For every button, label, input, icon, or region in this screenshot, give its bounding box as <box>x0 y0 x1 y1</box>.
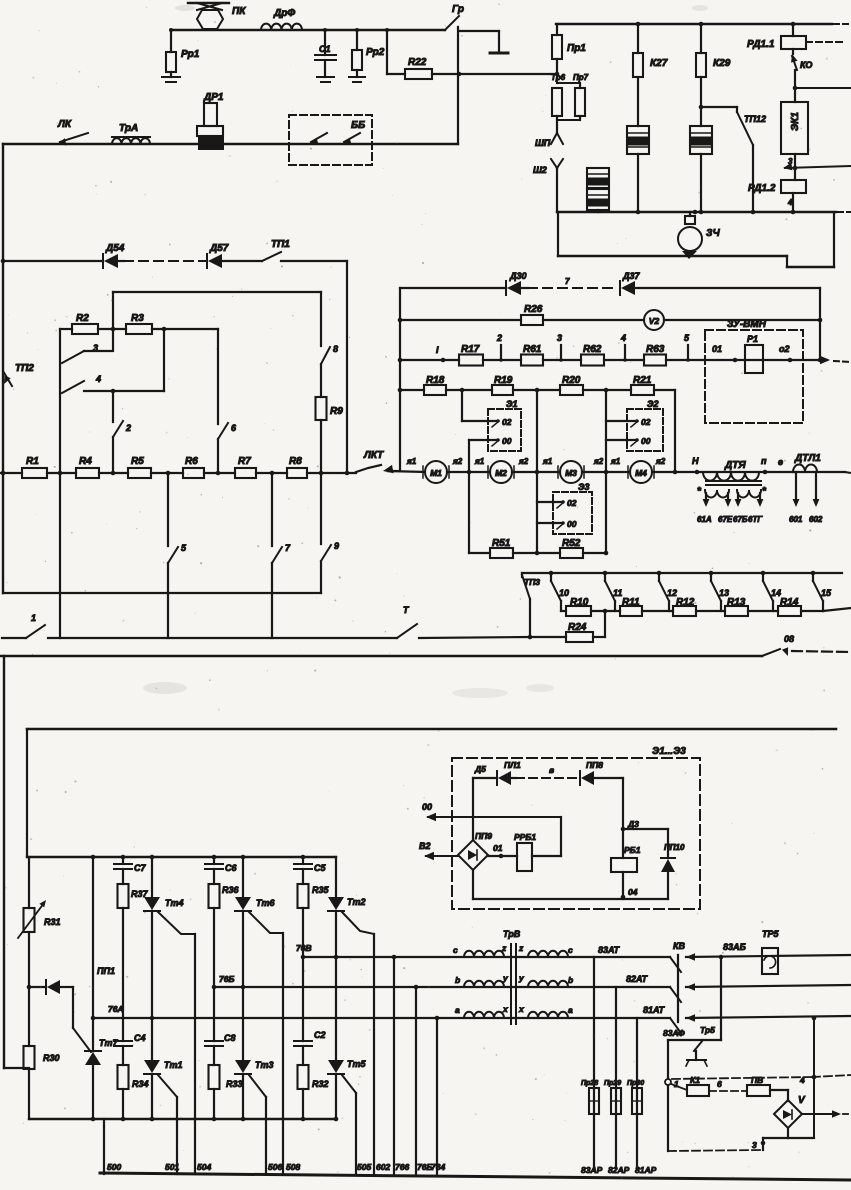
svg-text:ЗЧ: ЗЧ <box>706 228 721 239</box>
svg-text:Э2: Э2 <box>647 399 658 409</box>
svg-text:я1: я1 <box>474 457 485 466</box>
svg-text:я1: я1 <box>610 457 621 466</box>
svg-text:602: 602 <box>809 515 823 524</box>
svg-text:R31: R31 <box>44 917 61 927</box>
svg-text:z: z <box>501 943 507 953</box>
svg-text:а: а <box>455 1005 460 1015</box>
svg-text:4: 4 <box>620 333 626 343</box>
svg-text:я2: я2 <box>655 457 666 466</box>
svg-text:ТР5: ТР5 <box>762 929 780 939</box>
svg-text:ШП: ШП <box>535 138 551 148</box>
svg-text:ПЛ1: ПЛ1 <box>504 760 521 770</box>
svg-text:а: а <box>568 1005 573 1015</box>
svg-text:с: с <box>568 945 573 955</box>
svg-text:Пр1: Пр1 <box>567 43 586 54</box>
svg-text:1: 1 <box>31 613 36 623</box>
svg-text:Д3: Д3 <box>627 819 639 829</box>
svg-text:В2: В2 <box>419 841 431 851</box>
svg-text:766: 766 <box>395 1162 409 1172</box>
svg-text:501: 501 <box>165 1162 179 1172</box>
svg-text:500: 500 <box>107 1162 121 1172</box>
svg-text:Пр29: Пр29 <box>604 1080 621 1087</box>
svg-text:R30: R30 <box>43 1053 60 1063</box>
svg-text:61А: 61А <box>697 515 712 524</box>
svg-text:С8: С8 <box>224 1033 236 1043</box>
svg-text:81АТ: 81АТ <box>643 1005 666 1015</box>
svg-text:83АФ: 83АФ <box>663 1028 685 1038</box>
svg-text:я2: я2 <box>593 457 604 466</box>
svg-text:R11: R11 <box>622 597 640 608</box>
svg-text:76А: 76А <box>108 1004 124 1014</box>
svg-text:R8: R8 <box>289 456 302 467</box>
svg-text:R33: R33 <box>226 1079 243 1089</box>
svg-text:Рр2: Рр2 <box>366 47 385 58</box>
svg-text:00: 00 <box>502 436 512 446</box>
svg-text:ЭК1: ЭК1 <box>790 112 801 131</box>
svg-text:Пр7: Пр7 <box>573 73 589 82</box>
svg-text:РД1.2: РД1.2 <box>748 183 776 194</box>
svg-text:я2: я2 <box>518 457 529 466</box>
svg-text:z: z <box>518 943 524 953</box>
svg-text:R36: R36 <box>222 885 240 895</box>
svg-text:8: 8 <box>333 344 338 354</box>
svg-text:506: 506 <box>268 1162 282 1172</box>
svg-text:R2: R2 <box>76 313 89 324</box>
svg-text:b: b <box>568 975 573 985</box>
svg-text:504: 504 <box>197 1162 211 1172</box>
svg-text:я1: я1 <box>406 457 417 466</box>
svg-text:ПП8: ПП8 <box>586 760 603 770</box>
svg-text:М3: М3 <box>565 468 577 478</box>
svg-text:Д57: Д57 <box>209 243 229 254</box>
svg-text:ДТЯ: ДТЯ <box>724 460 746 471</box>
svg-text:R17: R17 <box>461 344 480 355</box>
svg-text:R24: R24 <box>568 622 587 633</box>
svg-text:Д30: Д30 <box>509 271 527 281</box>
svg-text:02: 02 <box>502 417 512 427</box>
svg-text:00: 00 <box>422 802 432 812</box>
svg-text:R63: R63 <box>646 344 665 355</box>
svg-text:Пр30: Пр30 <box>627 1080 644 1087</box>
svg-text:Д37: Д37 <box>622 271 641 281</box>
svg-text:R32: R32 <box>312 1079 329 1089</box>
svg-text:6: 6 <box>717 1079 722 1089</box>
svg-text:R10: R10 <box>570 597 589 608</box>
svg-text:Тт5: Тт5 <box>347 1059 367 1069</box>
svg-text:С1: С1 <box>319 44 331 54</box>
svg-text:Тт6: Тт6 <box>256 898 276 908</box>
svg-text:РД1.1: РД1.1 <box>747 39 775 50</box>
svg-text:6ТГ: 6ТГ <box>748 515 763 524</box>
svg-text:Рр1: Рр1 <box>181 49 200 60</box>
svg-text:R51: R51 <box>492 538 511 549</box>
svg-text:R4: R4 <box>79 456 92 467</box>
svg-text:Гр: Гр <box>452 4 464 15</box>
svg-text:ТП3: ТП3 <box>524 577 540 587</box>
svg-text:R7: R7 <box>238 456 251 467</box>
svg-text:Д54: Д54 <box>105 243 125 254</box>
svg-text:7: 7 <box>565 277 570 286</box>
svg-text:С4: С4 <box>134 1033 146 1043</box>
svg-text:Тт4: Тт4 <box>165 898 184 908</box>
svg-text:2: 2 <box>125 423 131 433</box>
svg-text:ТП1: ТП1 <box>271 239 290 250</box>
svg-text:С2: С2 <box>314 1030 326 1040</box>
svg-text:ТрА: ТрА <box>119 123 138 134</box>
svg-text:02: 02 <box>641 417 651 427</box>
svg-text:в: в <box>549 765 554 775</box>
svg-text:R52: R52 <box>562 538 581 549</box>
svg-text:ББ: ББ <box>351 120 365 131</box>
svg-text:Э3: Э3 <box>578 482 589 492</box>
svg-text:Ш2: Ш2 <box>533 165 547 175</box>
svg-text:ЛКТ: ЛКТ <box>363 450 384 461</box>
svg-text:b: b <box>455 975 460 985</box>
svg-text:505: 505 <box>357 1162 371 1172</box>
svg-text:9: 9 <box>334 541 339 551</box>
svg-text:ТрВ: ТрВ <box>503 929 521 939</box>
svg-text:83АТ: 83АТ <box>598 945 621 955</box>
svg-text:02: 02 <box>567 498 577 508</box>
svg-text:01: 01 <box>493 843 503 853</box>
svg-text:R20: R20 <box>562 375 581 386</box>
svg-text:R26: R26 <box>524 304 543 315</box>
svg-text:о2: о2 <box>779 344 790 354</box>
svg-text:С7: С7 <box>134 863 146 873</box>
svg-text:3: 3 <box>93 343 98 353</box>
svg-text:С5: С5 <box>314 863 326 873</box>
svg-text:15: 15 <box>821 588 832 598</box>
svg-text:Пр28: Пр28 <box>581 1080 598 1087</box>
svg-text:76В: 76В <box>296 943 312 953</box>
svg-text:я2: я2 <box>452 457 463 466</box>
svg-text:R61: R61 <box>523 344 542 355</box>
svg-text:602: 602 <box>376 1162 390 1172</box>
svg-text:М1: М1 <box>430 468 442 478</box>
svg-text:67Б: 67Б <box>733 515 748 524</box>
svg-text:Тт1: Тт1 <box>164 1060 183 1070</box>
svg-text:Э1: Э1 <box>506 399 517 409</box>
svg-text:R3: R3 <box>131 313 144 324</box>
svg-text:R22: R22 <box>408 57 427 68</box>
svg-text:ЛК: ЛК <box>57 119 72 130</box>
svg-text:R34: R34 <box>132 1079 149 1089</box>
svg-text:82АР: 82АР <box>608 1165 630 1175</box>
svg-text:R12: R12 <box>676 597 695 608</box>
svg-text:Р1: Р1 <box>747 334 758 344</box>
svg-text:ТП2: ТП2 <box>15 363 34 374</box>
svg-text:3: 3 <box>752 1140 757 1150</box>
svg-text:С6: С6 <box>225 863 237 873</box>
svg-text:V2: V2 <box>649 316 660 326</box>
svg-text:81АР: 81АР <box>635 1165 657 1175</box>
svg-text:764: 764 <box>431 1162 445 1172</box>
svg-text:Э1...Э3: Э1...Э3 <box>652 746 686 757</box>
svg-text:R62: R62 <box>583 344 602 355</box>
svg-text:я1: я1 <box>542 457 553 466</box>
svg-text:83АБ: 83АБ <box>723 942 747 952</box>
svg-text:R21: R21 <box>633 375 652 386</box>
svg-text:Тт2: Тт2 <box>347 897 366 907</box>
svg-text:ПК: ПК <box>232 6 246 17</box>
svg-text:ДР1: ДР1 <box>203 92 224 103</box>
svg-text:РРБ1: РРБ1 <box>514 832 536 842</box>
svg-text:76Б: 76Б <box>219 974 234 984</box>
svg-text:КВ: КВ <box>673 941 686 951</box>
svg-text:К27: К27 <box>650 58 668 69</box>
svg-text:М4: М4 <box>635 468 647 478</box>
svg-text:К1: К1 <box>690 1075 700 1085</box>
svg-text:R6: R6 <box>185 456 198 467</box>
svg-text:R35: R35 <box>312 885 330 895</box>
svg-text:К29: К29 <box>713 58 731 69</box>
svg-text:R9: R9 <box>330 406 343 417</box>
svg-text:е: е <box>778 457 783 467</box>
svg-text:R1: R1 <box>26 456 39 467</box>
svg-text:ПП9: ПП9 <box>475 831 492 841</box>
svg-text:601: 601 <box>789 515 803 524</box>
svg-text:R5: R5 <box>131 456 144 467</box>
svg-text:Д5: Д5 <box>474 764 486 774</box>
svg-text:4: 4 <box>799 1075 805 1085</box>
svg-text:4: 4 <box>95 374 101 384</box>
svg-text:ТП12: ТП12 <box>744 114 766 124</box>
svg-text:11: 11 <box>613 588 622 598</box>
svg-text:R13: R13 <box>727 597 746 608</box>
svg-text:R19: R19 <box>494 375 513 386</box>
svg-text:ДТЛ1: ДТЛ1 <box>794 453 821 464</box>
svg-text:ПП1: ПП1 <box>97 966 115 976</box>
svg-text:п: п <box>761 456 767 466</box>
svg-text:2: 2 <box>496 333 502 343</box>
svg-text:Тр5: Тр5 <box>700 1025 715 1035</box>
svg-text:КО: КО <box>800 60 812 70</box>
svg-text:82АТ: 82АТ <box>626 974 649 984</box>
svg-text:R14: R14 <box>780 597 799 608</box>
svg-text:3: 3 <box>788 157 793 166</box>
svg-text:с: с <box>453 945 458 955</box>
svg-text:508: 508 <box>286 1162 300 1172</box>
svg-text:01: 01 <box>712 344 722 354</box>
svg-text:10: 10 <box>559 588 569 598</box>
svg-text:РБ1: РБ1 <box>624 845 641 855</box>
svg-text:ДрФ: ДрФ <box>273 8 295 19</box>
svg-text:ЗУ-ВМН: ЗУ-ВМН <box>727 319 767 330</box>
svg-text:00: 00 <box>567 519 577 529</box>
svg-text:3: 3 <box>557 333 562 343</box>
svg-text:67Е: 67Е <box>718 515 733 524</box>
svg-text:R18: R18 <box>426 375 445 386</box>
svg-text:83АР: 83АР <box>581 1165 603 1175</box>
svg-text:ПП10: ПП10 <box>664 843 685 852</box>
svg-text:ПВ: ПВ <box>751 1075 763 1085</box>
svg-text:00: 00 <box>641 436 651 446</box>
svg-text:М2: М2 <box>495 468 507 478</box>
svg-text:Тт3: Тт3 <box>255 1060 274 1070</box>
svg-text:Тр6: Тр6 <box>551 73 566 82</box>
svg-text:08: 08 <box>784 634 794 644</box>
svg-text:04: 04 <box>628 887 638 897</box>
svg-text:Н: Н <box>692 456 699 466</box>
